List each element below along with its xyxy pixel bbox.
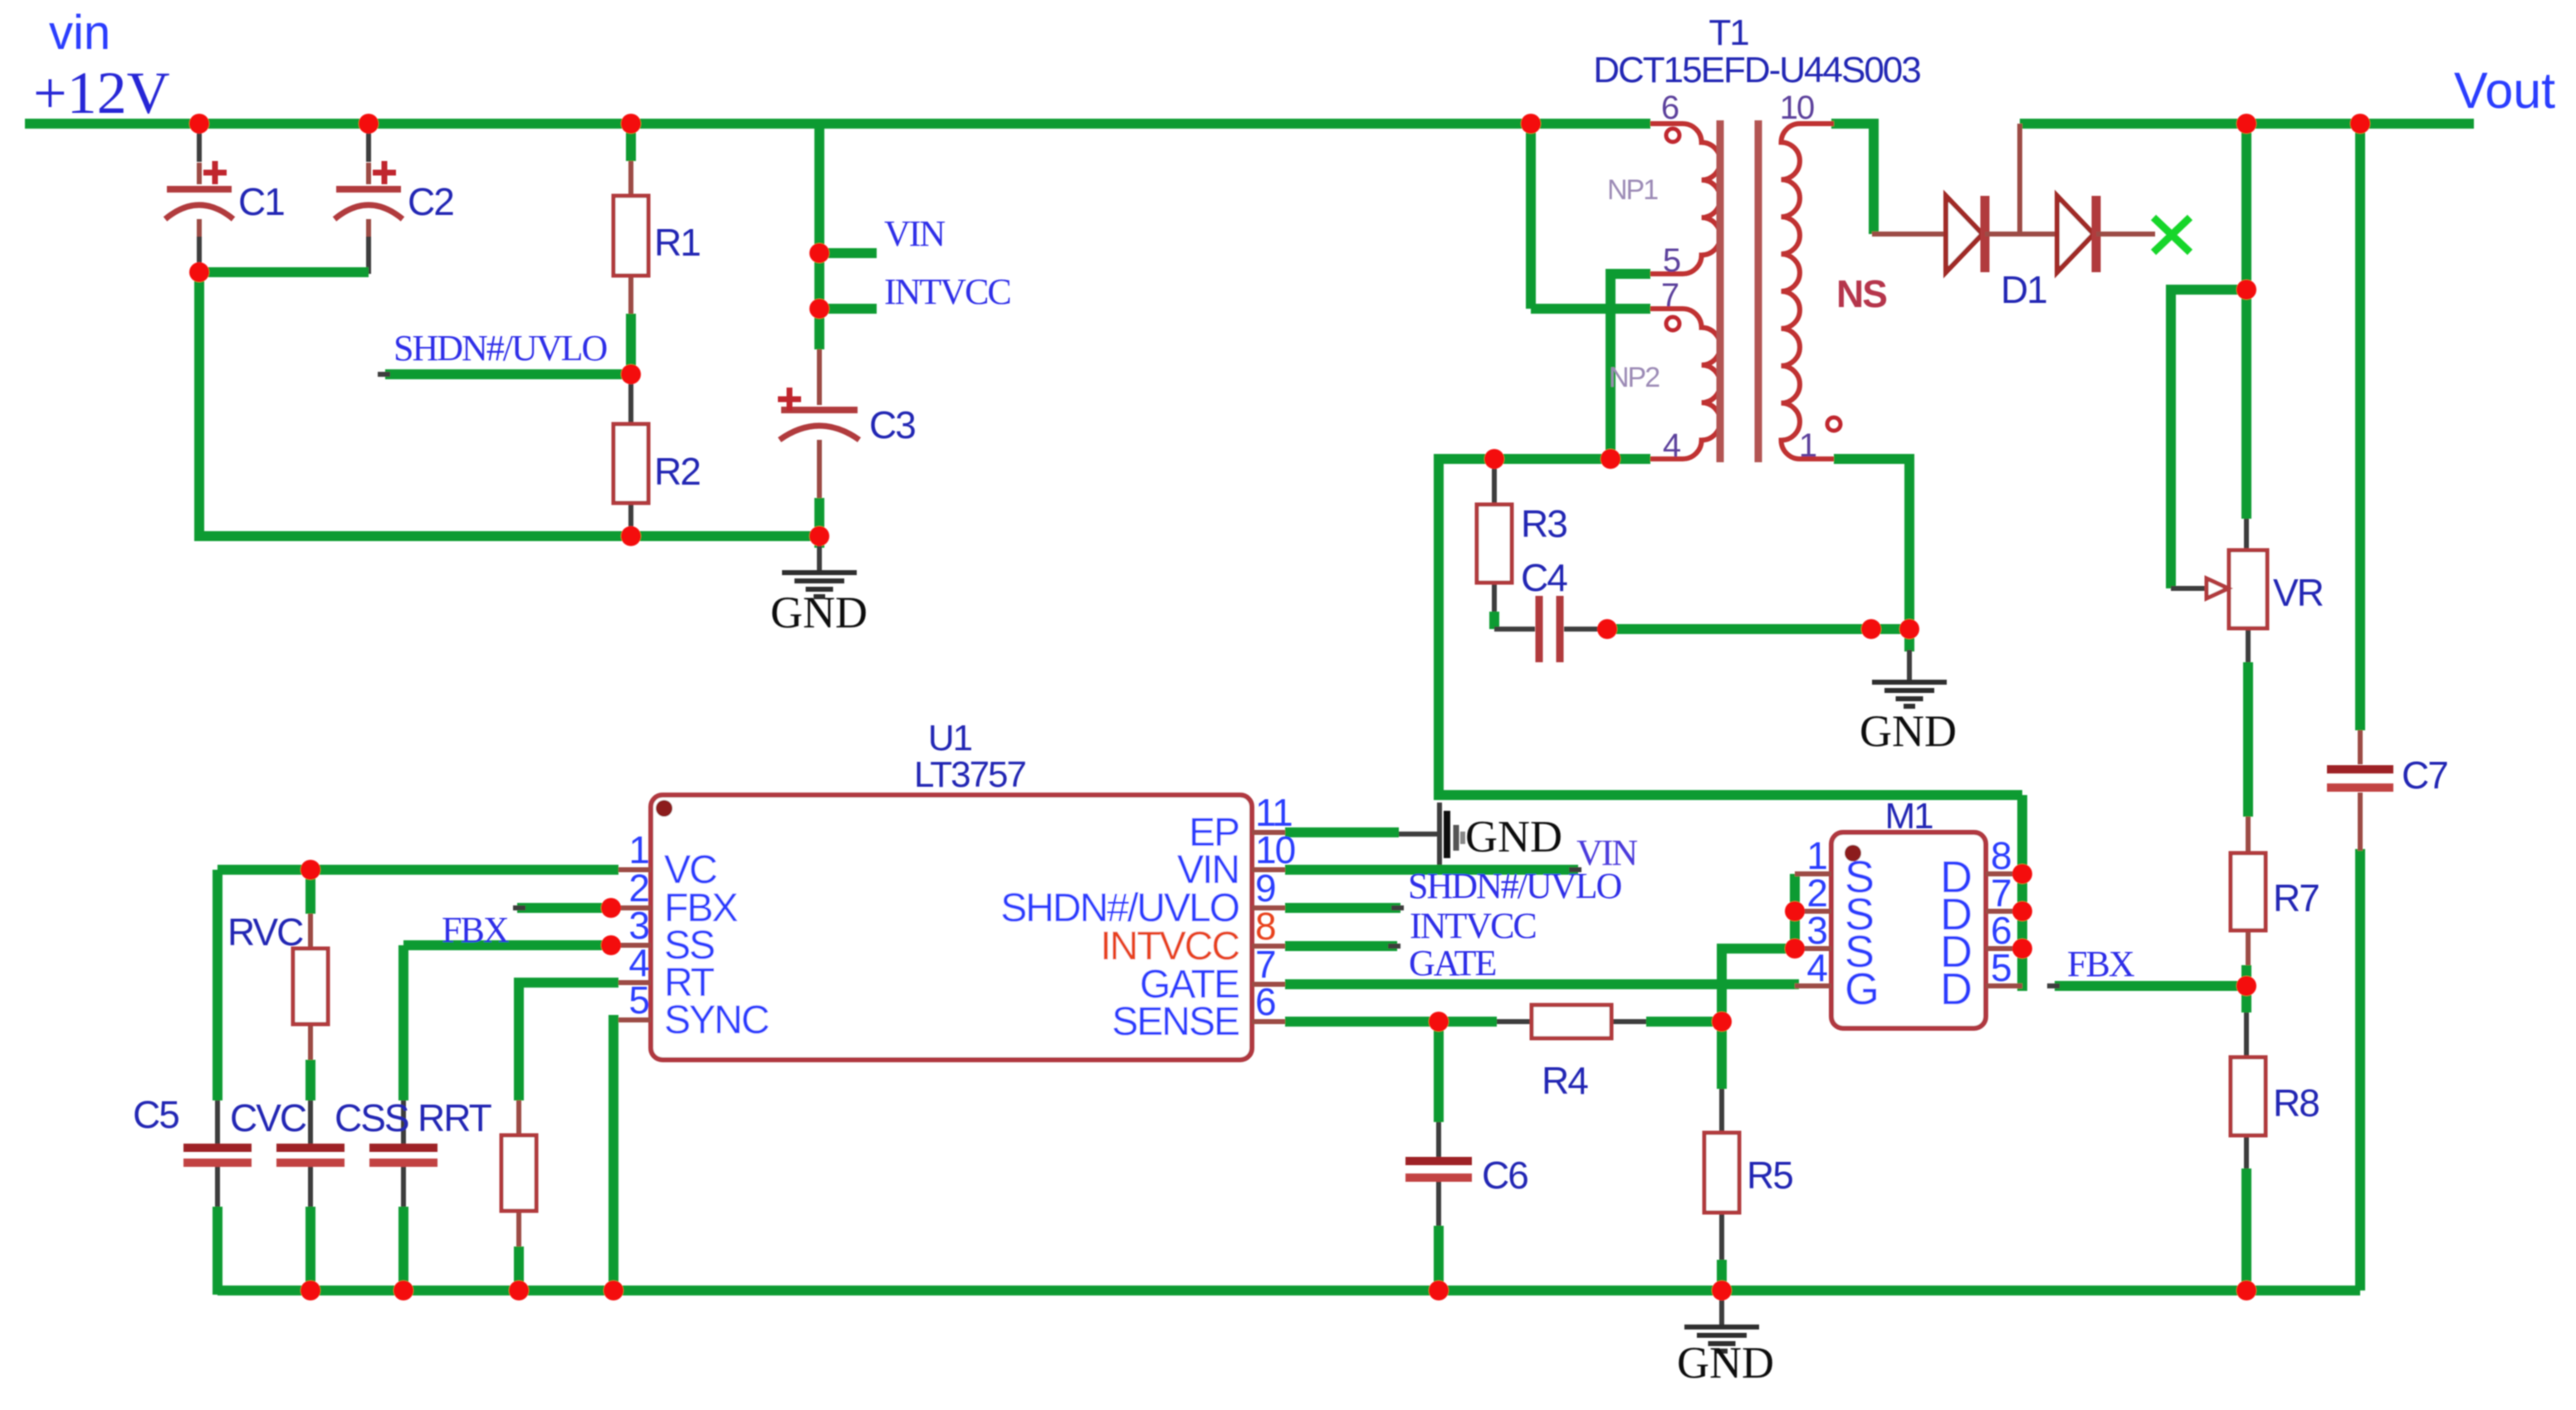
- svg-text:8: 8: [1255, 905, 1275, 948]
- svg-text:GND: GND: [1465, 812, 1562, 861]
- svg-text:R4: R4: [1542, 1059, 1588, 1102]
- svg-text:4: 4: [1806, 946, 1827, 989]
- svg-text:FBX: FBX: [2067, 944, 2134, 984]
- svg-text:C4: C4: [1521, 556, 1567, 599]
- svg-text:INTVCC: INTVCC: [884, 271, 1010, 312]
- svg-text:VR: VR: [2273, 571, 2324, 614]
- svg-text:6: 6: [1661, 90, 1679, 126]
- svg-text:R7: R7: [2273, 876, 2319, 920]
- svg-text:C2: C2: [408, 180, 453, 223]
- svg-text:1: 1: [628, 828, 648, 871]
- svg-text:RVC: RVC: [227, 910, 303, 954]
- svg-text:Vout: Vout: [2454, 62, 2555, 119]
- svg-text:CSS: CSS: [335, 1096, 408, 1139]
- svg-text:C3: C3: [869, 403, 915, 446]
- svg-text:INTVCC: INTVCC: [1410, 905, 1536, 946]
- svg-text:5: 5: [1991, 946, 2011, 989]
- svg-text:GATE: GATE: [1409, 943, 1496, 983]
- svg-text:10: 10: [1255, 828, 1295, 871]
- svg-text:vin: vin: [49, 6, 110, 60]
- svg-text:C1: C1: [238, 180, 284, 223]
- svg-text:R2: R2: [654, 450, 700, 493]
- svg-text:GND: GND: [1860, 706, 1957, 756]
- svg-text:G: G: [1845, 964, 1878, 1014]
- svg-text:DCT15EFD-U44S003: DCT15EFD-U44S003: [1593, 50, 1920, 90]
- svg-text:VIN: VIN: [884, 213, 945, 254]
- svg-text:5: 5: [628, 978, 648, 1022]
- svg-text:CVC: CVC: [230, 1096, 306, 1139]
- svg-text:SYNC: SYNC: [664, 998, 769, 1042]
- svg-text:NS: NS: [1836, 272, 1886, 315]
- svg-text:RRT: RRT: [418, 1096, 492, 1139]
- svg-text:NP1: NP1: [1607, 174, 1658, 206]
- svg-text:SHDN#/UVLO: SHDN#/UVLO: [393, 328, 606, 368]
- svg-text:D1: D1: [2001, 268, 2046, 311]
- svg-text:6: 6: [1255, 980, 1275, 1023]
- svg-text:M1: M1: [1884, 796, 1933, 837]
- svg-text:LT3757: LT3757: [914, 754, 1025, 795]
- svg-text:T1: T1: [1708, 12, 1748, 53]
- svg-text:SHDN#/UVLO: SHDN#/UVLO: [1408, 866, 1620, 906]
- svg-text:4: 4: [1663, 427, 1681, 464]
- svg-text:C5: C5: [133, 1093, 178, 1136]
- svg-text:10: 10: [1780, 90, 1814, 126]
- svg-text:5: 5: [1663, 242, 1680, 279]
- svg-text:+12V: +12V: [33, 60, 170, 126]
- svg-text:C7: C7: [2402, 754, 2447, 797]
- svg-text:FBX: FBX: [442, 910, 509, 950]
- svg-text:D: D: [1940, 964, 1971, 1014]
- svg-text:R8: R8: [2273, 1081, 2319, 1125]
- svg-text:7: 7: [1661, 277, 1679, 314]
- svg-text:C6: C6: [1482, 1154, 1528, 1197]
- svg-text:9: 9: [1255, 866, 1275, 910]
- svg-text:U1: U1: [928, 718, 972, 759]
- svg-text:R1: R1: [654, 221, 700, 264]
- svg-text:NP2: NP2: [1609, 362, 1659, 393]
- svg-text:GND: GND: [770, 588, 868, 637]
- svg-text:R3: R3: [1521, 502, 1567, 545]
- svg-text:1: 1: [1799, 427, 1816, 464]
- svg-text:R5: R5: [1747, 1154, 1792, 1197]
- svg-text:GND: GND: [1677, 1338, 1774, 1388]
- svg-text:SENSE: SENSE: [1112, 1000, 1239, 1044]
